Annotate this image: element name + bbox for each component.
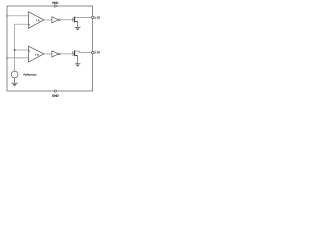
inverter B (52, 51, 60, 57)
wire reference to comparator A inverting input (15, 24, 29, 71)
wire IN2 to comparator B (7, 57, 29, 59)
wire Q1 drain to OUT1 (75, 17, 92, 19)
OUT1 label (94, 17, 101, 19)
wire comparator B output to inverter B (44, 53, 52, 55)
output pin OUT1 (91, 16, 93, 18)
ground under reference (11, 78, 17, 86)
inverter A (52, 17, 60, 23)
input pin IN1 (6, 15, 8, 17)
comparator B (28, 46, 43, 62)
wire comparator A output to inverter A (44, 19, 52, 21)
IC boundary box (7, 6, 93, 91)
ground under Q2 (75, 56, 81, 67)
OUT2 label (94, 51, 101, 53)
reference V1 (11, 71, 18, 78)
VDD label (52, 2, 58, 4)
GND pin (54, 90, 56, 92)
transistor Q2 (73, 50, 78, 56)
junction node reference tap (14, 49, 16, 51)
wire Q2 drain to OUT2 (75, 51, 92, 52)
GND label (52, 95, 58, 97)
comparator A (28, 12, 44, 29)
output pin OUT2 (91, 51, 93, 53)
VDD pin (54, 5, 56, 7)
transistor Q1 (73, 17, 78, 23)
wire inverter A to Q1 gate (60, 19, 73, 21)
input pin IN2 (6, 57, 8, 59)
ground under Q1 (75, 22, 81, 31)
Reference label (24, 74, 37, 76)
wire reference tap to comparator B (15, 49, 29, 51)
wire inverter B to Q2 gate (60, 53, 73, 55)
wire IN1 to comparator A (7, 15, 29, 17)
